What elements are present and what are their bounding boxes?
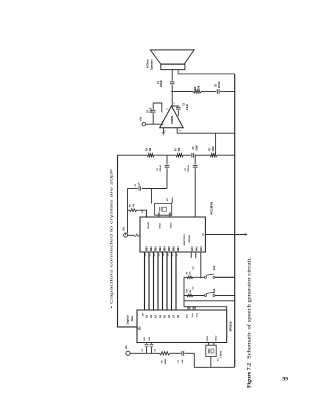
svg-text:C6: C6: [185, 167, 187, 171]
svg-text:LM386: LM386: [170, 115, 174, 124]
svg-text:D7: D7: [177, 253, 179, 257]
svg-text:C1: C1: [178, 359, 180, 363]
svg-text:RB6/T0CK1: RB6/T0CK1: [184, 233, 186, 245]
svg-text:99: 99: [283, 377, 289, 383]
svg-text:SP0256: SP0256: [229, 321, 233, 331]
svg-text:Figure 7.2: Figure 7.2: [248, 362, 253, 388]
svg-text:680K: 680K: [165, 358, 167, 364]
svg-text:10k: 10k: [133, 203, 135, 207]
svg-text:4MHz: 4MHz: [171, 196, 174, 203]
svg-text:4: 4: [179, 129, 182, 131]
svg-text:.022uF: .022uF: [160, 164, 162, 172]
svg-text:Speaker: Speaker: [149, 58, 153, 70]
svg-text:RA1: RA1: [195, 246, 198, 251]
svg-text:CS: CS: [202, 232, 204, 236]
svg-text:C3: C3: [184, 102, 186, 106]
svg-text:Out: Out: [130, 316, 134, 321]
svg-text:Vdd: Vdd: [197, 312, 199, 317]
svg-text:OSC2: OSC2: [171, 222, 173, 229]
svg-text:28: 28: [138, 328, 140, 330]
svg-text:OSC2: OSC2: [215, 335, 217, 342]
svg-text:RA0: RA0: [191, 246, 194, 251]
svg-text:X1: X1: [217, 358, 219, 361]
svg-text:A6: A6: [168, 314, 171, 318]
svg-text:R4: R4: [145, 147, 148, 151]
svg-text:RA2: RA2: [200, 246, 203, 251]
svg-text:MCLR: MCLR: [148, 222, 150, 229]
svg-text:C1: C1: [135, 183, 137, 187]
svg-text:C4: C4: [146, 109, 149, 113]
svg-text:100uF: 100uF: [160, 80, 163, 87]
svg-text:RB1: RB1: [151, 246, 153, 251]
svg-text:10k: 10k: [179, 147, 181, 152]
svg-text:Vd2: Vd2: [149, 336, 151, 341]
svg-text:Test: Test: [185, 314, 188, 319]
svg-text:+5v: +5v: [192, 266, 194, 270]
svg-text:220uF: 220uF: [219, 81, 221, 88]
svg-text:22uF: 22uF: [197, 145, 199, 151]
svg-text:• Capacitors connected to crys: • Capacitors connected to crystals are 2…: [109, 169, 113, 309]
svg-text:RB7: RB7: [178, 246, 180, 251]
svg-text:+5v: +5v: [123, 226, 125, 231]
svg-text:RB5: RB5: [169, 246, 171, 251]
svg-text:A3: A3: [155, 314, 158, 318]
svg-text:D0: D0: [143, 312, 145, 316]
svg-text:+5v: +5v: [192, 286, 194, 290]
svg-text:C3: C3: [193, 146, 195, 150]
svg-text:RB6: RB6: [174, 246, 176, 251]
svg-text:RB2: RB2: [156, 246, 158, 251]
svg-text:A7: A7: [173, 314, 176, 318]
svg-text:Vss: Vss: [192, 313, 194, 318]
svg-text:R8: R8: [195, 86, 197, 90]
svg-text:RB4: RB4: [164, 246, 167, 251]
svg-text:C2: C2: [142, 349, 144, 351]
svg-text:Sw2: Sw2: [214, 265, 216, 270]
svg-text:8.2uF: 8.2uF: [187, 103, 189, 110]
svg-text:.1uF: .1uF: [139, 182, 141, 187]
svg-text:OSC1: OSC1: [207, 335, 209, 342]
svg-text:120k: 120k: [213, 146, 215, 152]
svg-text:.022uF: .022uF: [188, 164, 190, 172]
svg-text:+5v: +5v: [126, 345, 128, 350]
svg-text:A4: A4: [159, 314, 162, 318]
svg-text:Schematic of speech generator: Schematic of speech generator circuit.: [248, 257, 253, 359]
svg-text:10uF: 10uF: [150, 107, 152, 113]
svg-text:D1: D1: [150, 253, 152, 257]
svg-text:C8: C8: [216, 83, 218, 87]
svg-text:R1: R1: [162, 359, 164, 363]
svg-text:R10: R10: [187, 288, 189, 293]
svg-text:X2: X2: [167, 198, 169, 201]
svg-text:5: 5: [174, 102, 176, 104]
svg-text:RB3: RB3: [160, 246, 162, 251]
svg-text:A8: A8: [177, 314, 180, 318]
svg-text:24k: 24k: [197, 85, 200, 90]
svg-text:C5: C5: [157, 167, 159, 171]
svg-text:R7: R7: [175, 147, 177, 151]
svg-text:Sw1: Sw1: [214, 288, 216, 293]
svg-text:PIC16F84: PIC16F84: [210, 201, 214, 214]
svg-text:RB0: RB0: [147, 246, 149, 251]
svg-text:D5: D5: [168, 253, 170, 257]
svg-text:A2: A2: [150, 314, 153, 318]
svg-text:10k: 10k: [190, 271, 192, 275]
svg-text:R2: R2: [210, 147, 212, 151]
svg-text:RB7/A2: RB7/A2: [188, 234, 191, 242]
svg-text:8 Ohm: 8 Ohm: [146, 59, 150, 68]
svg-text:.1uF: .1uF: [182, 359, 184, 364]
svg-text:OSC1: OSC1: [160, 222, 162, 229]
svg-text:D6: D6: [172, 253, 174, 257]
svg-text:1.0MHz: 1.0MHz: [221, 350, 223, 358]
svg-text:D3: D3: [159, 253, 161, 257]
svg-text:R9: R9: [187, 271, 189, 274]
svg-text:D0: D0: [145, 253, 147, 257]
svg-text:A5: A5: [164, 314, 167, 318]
svg-text:A1: A1: [146, 314, 149, 318]
svg-text:D2: D2: [154, 253, 156, 257]
svg-text:Vd1: Vd1: [144, 336, 146, 341]
svg-text:R5: R5: [130, 203, 132, 207]
svg-text:10k: 10k: [150, 147, 152, 152]
svg-text:6: 6: [166, 108, 168, 110]
svg-text:2: 2: [165, 130, 167, 132]
svg-text:+9v: +9v: [139, 116, 142, 121]
svg-text:C3: C3: [154, 349, 156, 351]
